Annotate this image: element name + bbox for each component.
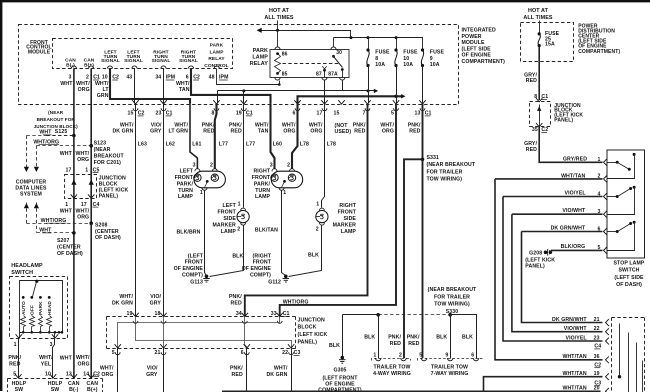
IPM connector pin 8 bbox=[213, 100, 219, 104]
wire WHT/TAN loop (pin2 to row 36) bbox=[495, 179, 603, 360]
U1 FCM pin 3 bbox=[71, 66, 76, 69]
svg-text:6: 6 bbox=[241, 350, 244, 356]
svg-text:5: 5 bbox=[112, 350, 115, 356]
node S330 splice row bbox=[343, 314, 379, 316]
svg-text:3: 3 bbox=[270, 162, 273, 168]
svg-text:5: 5 bbox=[419, 353, 422, 359]
svg-text:4-WAY WIRING: 4-WAY WIRING bbox=[373, 371, 411, 377]
svg-text:S125: S125 bbox=[55, 129, 68, 135]
node S208 splice bbox=[89, 221, 93, 225]
switch SW2 pin 4 bbox=[604, 193, 607, 200]
svg-text:FUSE: FUSE bbox=[375, 50, 390, 56]
svg-text:COMPARTMENT): COMPARTMENT) bbox=[462, 59, 506, 65]
svg-text:PANEL): PANEL) bbox=[554, 118, 573, 124]
svg-text:OF ENGINE: OF ENGINE bbox=[174, 266, 204, 272]
wire CAN B(+) WHT/ORG from FCM pin 2 bbox=[90, 69, 92, 379]
switch SW2 element 1 bbox=[607, 162, 618, 164]
svg-text:GRY: GRY bbox=[146, 372, 158, 378]
svg-text:33: 33 bbox=[271, 311, 277, 317]
relay K1 terminal 86 bump bbox=[275, 47, 280, 50]
svg-text:WHT/: WHT/ bbox=[309, 122, 323, 128]
wire GRY/RED from fuse 25 bbox=[538, 46, 540, 100]
switch SW1 rotary pivot and blade bbox=[35, 280, 38, 283]
switch SW1 resistors bbox=[21, 316, 26, 327]
svg-text:AUTO: AUTO bbox=[21, 301, 27, 315]
svg-text:17: 17 bbox=[66, 167, 72, 173]
svg-text:86: 86 bbox=[282, 52, 288, 58]
svg-text:DATA LINES: DATA LINES bbox=[15, 186, 47, 192]
svg-text:HOT AT: HOT AT bbox=[528, 8, 549, 14]
U1 FCM pin 2, connector C1 bbox=[89, 66, 94, 69]
svg-text:FRONT: FRONT bbox=[252, 175, 271, 181]
svg-text:10: 10 bbox=[403, 56, 409, 62]
svg-text:LEFT: LEFT bbox=[180, 169, 194, 175]
svg-text:TURN: TURN bbox=[255, 188, 270, 194]
junction block bottom pin 22 bbox=[288, 344, 294, 348]
fuse F10 (FUSE 10 10A) bbox=[396, 38, 398, 50]
junction block (right) box bbox=[530, 102, 551, 127]
svg-text:BLK: BLK bbox=[232, 253, 243, 259]
svg-text:WHT: WHT bbox=[60, 81, 73, 87]
wire relay 30 riser bbox=[333, 38, 335, 47]
wire L63 WHT/DK GRN to junction block pin 19 bbox=[135, 105, 137, 317]
svg-text:17: 17 bbox=[317, 111, 323, 117]
U1 FCM pin 6, connector C2 bbox=[188, 66, 193, 69]
node S331 splice bbox=[421, 158, 425, 162]
svg-text:(RIGHT: (RIGHT bbox=[253, 253, 272, 259]
svg-text:WHT: WHT bbox=[60, 151, 73, 157]
relay K1 mechanical link (dashed) bbox=[283, 63, 339, 65]
svg-text:19: 19 bbox=[127, 311, 133, 317]
svg-text:RED: RED bbox=[526, 78, 537, 84]
svg-text:BLK: BLK bbox=[436, 335, 447, 341]
ground G112 bbox=[283, 275, 290, 283]
svg-text:2: 2 bbox=[316, 226, 319, 232]
IPM connector pin 15 C2 bbox=[132, 100, 138, 104]
svg-text:6: 6 bbox=[186, 75, 189, 81]
svg-text:RED: RED bbox=[231, 129, 242, 135]
svg-text:8: 8 bbox=[212, 111, 215, 117]
svg-text:WHT/: WHT/ bbox=[120, 122, 134, 128]
svg-text:DK GRN: DK GRN bbox=[266, 372, 287, 378]
relay K1 terminal 87A bbox=[341, 68, 344, 71]
svg-text:1: 1 bbox=[14, 342, 17, 348]
svg-text:5: 5 bbox=[391, 111, 394, 117]
svg-text:S330: S330 bbox=[446, 309, 459, 315]
svg-text:WHT: WHT bbox=[60, 208, 73, 214]
switch SW1 position contacts bbox=[22, 296, 25, 299]
fuse F9 (FUSE 9 10A) bbox=[421, 50, 423, 66]
svg-text:L63: L63 bbox=[138, 141, 147, 147]
svg-text:WHT/: WHT/ bbox=[255, 122, 269, 128]
svg-text:SW: SW bbox=[15, 387, 24, 392]
switch SW2 pin 3 bbox=[604, 211, 607, 218]
svg-text:YEL: YEL bbox=[41, 361, 52, 367]
svg-text:VIO/WHT: VIO/WHT bbox=[562, 208, 586, 214]
svg-text:10A: 10A bbox=[375, 62, 385, 68]
svg-text:USED): USED) bbox=[335, 129, 352, 135]
svg-text:5: 5 bbox=[13, 371, 16, 377]
svg-text:10A: 10A bbox=[403, 62, 413, 68]
svg-text:21: 21 bbox=[594, 317, 600, 323]
svg-text:GRN: GRN bbox=[97, 93, 109, 99]
FCM bottom pin 10 bbox=[50, 374, 56, 378]
wire WHT/ORG from IPM pin 5 to junction pin 33 bbox=[280, 104, 396, 317]
wire hot feed riser to relay 86 bbox=[277, 21, 279, 47]
wire L60 WHT/TAN to right park lamp pin 3 (thick) bbox=[271, 104, 275, 169]
junction block internal arrows bbox=[71, 180, 76, 185]
IPM connector pin 19 C1 bbox=[241, 100, 247, 104]
svg-text:(NEAR: (NEAR bbox=[94, 147, 111, 153]
svg-text:TOW WIRING): TOW WIRING) bbox=[434, 302, 470, 308]
svg-text:VIO/YEL: VIO/YEL bbox=[566, 335, 588, 341]
switch SW1 feed rail bbox=[20, 281, 63, 333]
svg-text:DK GRN: DK GRN bbox=[112, 129, 133, 135]
svg-text:1: 1 bbox=[85, 167, 88, 173]
switch SW2 pin 1 bbox=[604, 159, 607, 166]
svg-text:PNK/: PNK/ bbox=[388, 335, 401, 341]
U1 FCM pin 43 bbox=[132, 66, 137, 69]
svg-text:BLK: BLK bbox=[462, 335, 473, 341]
wire link row21 to row19 bbox=[619, 324, 621, 377]
svg-text:PNK/: PNK/ bbox=[353, 122, 366, 128]
svg-text:WHT: WHT bbox=[60, 355, 73, 361]
wire row36 continuation bbox=[642, 361, 644, 392]
svg-text:WHT/: WHT/ bbox=[119, 294, 133, 300]
svg-text:10: 10 bbox=[102, 75, 108, 81]
svg-text:VIO/WHT: VIO/WHT bbox=[564, 326, 588, 332]
svg-text:G305: G305 bbox=[333, 367, 346, 373]
switch SW2 STOP LAMP SWITCH box bbox=[607, 150, 645, 258]
svg-text:HEAD: HEAD bbox=[47, 301, 53, 315]
IPM connector pin 23 C1 bbox=[160, 100, 166, 104]
svg-text:9: 9 bbox=[445, 353, 448, 359]
svg-text:OF DASH): OF DASH) bbox=[616, 282, 642, 288]
svg-text:(CENTER: (CENTER bbox=[57, 245, 81, 251]
svg-text:18: 18 bbox=[155, 311, 161, 317]
svg-text:L78: L78 bbox=[327, 141, 336, 147]
svg-text:TOW WIRING): TOW WIRING) bbox=[427, 177, 463, 183]
svg-text:LT GRN: LT GRN bbox=[168, 129, 188, 135]
wire VIO/WHT loop (pin3 to row 22) bbox=[512, 214, 603, 332]
wire S330 to 7-way pin 9 bbox=[450, 315, 452, 359]
svg-text:LAMP: LAMP bbox=[178, 194, 194, 200]
junction block internal link 33-5 bbox=[118, 317, 280, 349]
lamp LEFT FRONT PARK/TURN LAMP bbox=[194, 171, 225, 188]
lamp RIGHT FRONT PARK/TURN LAMP bbox=[271, 171, 302, 188]
svg-text:6: 6 bbox=[471, 353, 474, 359]
wire S331 branch to 4-way pin 2 bbox=[404, 159, 423, 358]
svg-text:VIO/YEL: VIO/YEL bbox=[565, 190, 587, 196]
svg-text:MARKER: MARKER bbox=[213, 222, 237, 228]
fuse F8 (FUSE 8 10A) bbox=[368, 38, 370, 50]
svg-text:(CENTER: (CENTER bbox=[95, 229, 119, 235]
wire dashed data line from S125 bbox=[47, 135, 74, 137]
svg-text:WHT/TAN: WHT/TAN bbox=[562, 354, 586, 360]
svg-text:PANEL): PANEL) bbox=[298, 339, 318, 345]
IPM connector pin 15 bbox=[338, 100, 344, 104]
FCM bottom pin 14 bbox=[88, 374, 94, 378]
svg-text:14: 14 bbox=[83, 371, 89, 377]
svg-text:L77: L77 bbox=[246, 141, 255, 147]
svg-text:85: 85 bbox=[282, 72, 288, 78]
svg-text:6: 6 bbox=[293, 111, 296, 117]
svg-text:ORG: ORG bbox=[77, 214, 89, 220]
svg-text:(NOT: (NOT bbox=[335, 123, 349, 129]
svg-text:(LEFT KICK: (LEFT KICK bbox=[525, 257, 555, 263]
svg-text:1: 1 bbox=[598, 157, 601, 163]
relay K1 switch blade bbox=[334, 57, 343, 68]
relay K1 coil bbox=[275, 54, 281, 74]
wire VIO/YEL loop (pin4 to row 23) bbox=[503, 197, 603, 342]
svg-text:30: 30 bbox=[336, 50, 342, 56]
U1 FCM pin 34, connector IPM bbox=[161, 66, 166, 69]
svg-text:(LEFT KICK: (LEFT KICK bbox=[298, 332, 328, 338]
svg-text:BLK/ORG: BLK/ORG bbox=[561, 244, 586, 250]
svg-text:WHT/: WHT/ bbox=[282, 122, 296, 128]
wire DK GRN/WHT loop (pin6 to row 21) bbox=[522, 232, 603, 323]
connector TRAILER TOW 7-WAY WIRING bbox=[418, 359, 483, 361]
svg-text:1: 1 bbox=[65, 202, 68, 208]
svg-text:L78: L78 bbox=[300, 141, 309, 147]
wire row23 continuation bbox=[636, 343, 638, 392]
svg-text:BLK/TAN: BLK/TAN bbox=[255, 228, 278, 234]
svg-text:PNK/: PNK/ bbox=[408, 122, 421, 128]
svg-text:PANEL): PANEL) bbox=[525, 264, 545, 270]
svg-text:17: 17 bbox=[81, 202, 87, 208]
svg-text:WHT/ORG: WHT/ORG bbox=[283, 299, 309, 305]
svg-text:G113: G113 bbox=[190, 279, 203, 285]
wire fuse8 down to IPM pin 7 bbox=[368, 66, 370, 104]
svg-text:(NEAR BREAKOUT: (NEAR BREAKOUT bbox=[427, 162, 476, 168]
svg-text:WHT/: WHT/ bbox=[380, 122, 394, 128]
svg-text:HEADLAMP: HEADLAMP bbox=[11, 263, 43, 269]
svg-text:8: 8 bbox=[375, 56, 378, 62]
svg-text:13: 13 bbox=[66, 371, 72, 377]
wire dashed data line from S123 bbox=[37, 145, 92, 147]
relay K1 bottom bumps bbox=[275, 78, 280, 81]
svg-text:INTEGRATED: INTEGRATED bbox=[462, 28, 496, 34]
svg-text:VIO/: VIO/ bbox=[151, 122, 162, 128]
svg-text:G208: G208 bbox=[529, 251, 542, 257]
svg-text:1: 1 bbox=[316, 202, 319, 208]
svg-text:15A: 15A bbox=[545, 42, 555, 48]
svg-text:L77: L77 bbox=[219, 141, 228, 147]
svg-text:S207: S207 bbox=[57, 238, 70, 244]
svg-text:1: 1 bbox=[200, 190, 203, 196]
svg-text:PNK/: PNK/ bbox=[230, 366, 243, 372]
svg-text:RELAY: RELAY bbox=[208, 56, 225, 62]
wire branch to IPM pin 19 bbox=[243, 91, 245, 104]
wire L77 PNK/RED to left park lamp pin 2 (thick) bbox=[215, 104, 217, 169]
svg-text:OF DASH): OF DASH) bbox=[57, 251, 83, 257]
svg-text:JUNCTION: JUNCTION bbox=[298, 317, 325, 323]
svg-text:SW: SW bbox=[51, 387, 60, 392]
svg-text:2: 2 bbox=[287, 162, 290, 168]
wire branch to IPM pin 8 bbox=[217, 91, 219, 104]
switch SW1 pin 1 bbox=[19, 333, 21, 339]
svg-text:3: 3 bbox=[193, 162, 196, 168]
lamp RIGHT FRONT SIDE MARKER LAMP bbox=[316, 211, 328, 223]
svg-text:SIDE: SIDE bbox=[223, 216, 236, 222]
svg-text:2: 2 bbox=[210, 162, 213, 168]
svg-text:PARK: PARK bbox=[38, 301, 44, 315]
svg-text:SYSTEM: SYSTEM bbox=[20, 192, 42, 198]
svg-text:STOP LAMP: STOP LAMP bbox=[614, 261, 645, 267]
svg-text:TRAILER TOW: TRAILER TOW bbox=[431, 365, 468, 371]
svg-text:FRONT: FRONT bbox=[185, 260, 204, 266]
junction block top pin 19 bbox=[132, 313, 138, 317]
ground G113 bbox=[203, 275, 210, 283]
U1 FCM pin 48, connector IPM bbox=[214, 66, 219, 69]
svg-text:COMPT): COMPT) bbox=[250, 272, 271, 278]
svg-text:L61: L61 bbox=[192, 141, 201, 147]
power distribution center box bbox=[521, 23, 574, 62]
svg-text:PNK/: PNK/ bbox=[229, 294, 242, 300]
svg-text:9: 9 bbox=[430, 56, 433, 62]
switch SW1 box bbox=[10, 277, 68, 339]
IPM connector pin 13 C1 bbox=[419, 100, 425, 104]
svg-text:35: 35 bbox=[532, 127, 538, 133]
junction block (left kick panel) box bbox=[107, 316, 296, 318]
svg-text:MODULE: MODULE bbox=[28, 49, 51, 55]
connector TRAILER TOW 4-WAY WIRING bbox=[372, 359, 411, 361]
svg-text:PARK/: PARK/ bbox=[177, 181, 194, 187]
svg-text:34: 34 bbox=[155, 75, 161, 81]
svg-text:13: 13 bbox=[415, 111, 421, 117]
FCM bottom pin 5 bbox=[15, 374, 21, 378]
svg-text:COMPUTER: COMPUTER bbox=[16, 179, 47, 185]
wire WHT/TAN row 19 from below bbox=[484, 377, 603, 392]
svg-text:DK GRN: DK GRN bbox=[112, 300, 133, 306]
svg-text:34: 34 bbox=[236, 311, 242, 317]
svg-text:22: 22 bbox=[282, 350, 288, 356]
svg-text:PNK/: PNK/ bbox=[229, 122, 242, 128]
svg-text:OF ENGINE: OF ENGINE bbox=[242, 266, 272, 272]
svg-text:7: 7 bbox=[363, 111, 366, 117]
fuse F25 (FUSE 25 15A) bbox=[539, 21, 541, 34]
svg-text:22: 22 bbox=[594, 326, 600, 332]
svg-text:MODULE: MODULE bbox=[462, 40, 486, 46]
wire rail from hot feed with page arrow bbox=[259, 31, 351, 38]
svg-text:B(-): B(-) bbox=[69, 387, 79, 392]
wire FCM pin48 to relay 85 bbox=[217, 69, 280, 85]
svg-text:(LEFT: (LEFT bbox=[188, 253, 204, 259]
svg-text:RELAY: RELAY bbox=[250, 61, 269, 67]
svg-text:OFF: OFF bbox=[30, 305, 36, 315]
svg-text:10A: 10A bbox=[430, 62, 440, 68]
svg-text:RED: RED bbox=[203, 129, 214, 135]
wire FCM pin10 left-turn feed (thick) bbox=[110, 69, 190, 104]
wire L62 VIO/GRY to junction block pin 18 bbox=[163, 105, 165, 317]
junction block top pin 34 bbox=[242, 313, 248, 317]
wire FCM pin6 right-turn feed (thick) bbox=[190, 69, 192, 72]
svg-text:15: 15 bbox=[334, 111, 340, 117]
node S207 splice bbox=[72, 231, 76, 235]
svg-text:ORG: ORG bbox=[101, 372, 113, 378]
junction block top pin 18 bbox=[160, 313, 166, 317]
svg-text:PNK/: PNK/ bbox=[407, 335, 420, 341]
svg-text:SIGNAL: SIGNAL bbox=[179, 58, 198, 64]
switch SW2 pin 6 bbox=[604, 228, 607, 235]
svg-text:3: 3 bbox=[69, 75, 72, 81]
svg-text:RED: RED bbox=[354, 129, 365, 135]
svg-text:WHT/: WHT/ bbox=[100, 366, 114, 372]
svg-text:RIGHT: RIGHT bbox=[339, 203, 356, 209]
svg-text:2: 2 bbox=[86, 75, 89, 81]
svg-text:FRONT: FRONT bbox=[175, 175, 194, 181]
svg-text:VIO/: VIO/ bbox=[147, 366, 158, 372]
svg-text:GRY: GRY bbox=[150, 300, 162, 306]
svg-text:TRAILER TOW: TRAILER TOW bbox=[373, 365, 410, 371]
svg-text:19: 19 bbox=[236, 111, 242, 117]
wire L78 WHT/ORG to right park lamp pin 2 (thick) bbox=[292, 104, 298, 169]
svg-text:BREAKOUT FOR: BREAKOUT FOR bbox=[37, 117, 76, 122]
wire FCM pin43 turn signal bbox=[134, 69, 136, 104]
svg-text:RED: RED bbox=[409, 129, 420, 135]
svg-text:FRONT: FRONT bbox=[338, 210, 357, 216]
junction block bottom pin 6 bbox=[244, 344, 250, 348]
svg-text:(NEAR: (NEAR bbox=[48, 110, 64, 115]
svg-text:RED: RED bbox=[232, 372, 243, 378]
svg-text:BREAKOUT: BREAKOUT bbox=[94, 153, 125, 159]
svg-text:SWITCH: SWITCH bbox=[618, 268, 639, 274]
svg-text:SWITCH: SWITCH bbox=[11, 270, 33, 276]
lamp LEFT FRONT SIDE MARKER LAMP bbox=[237, 211, 249, 223]
IPM connector pin 7 bbox=[364, 100, 370, 104]
svg-text:RED: RED bbox=[390, 341, 401, 347]
svg-text:3: 3 bbox=[50, 342, 53, 348]
junction block internal link 19-22 bbox=[136, 317, 292, 349]
svg-text:(LEFT SIDE: (LEFT SIDE bbox=[614, 275, 644, 281]
svg-text:BLK/BRN: BLK/BRN bbox=[176, 229, 200, 235]
svg-text:1: 1 bbox=[238, 202, 241, 208]
svg-text:43: 43 bbox=[126, 75, 132, 81]
svg-text:BLK: BLK bbox=[364, 335, 375, 341]
svg-text:FOR TRAILER: FOR TRAILER bbox=[434, 294, 470, 300]
ground G305 bbox=[339, 356, 346, 364]
wire PNK/RED from IPM pin 7 to junction pin 34 bbox=[245, 104, 368, 317]
svg-text:ORG: ORG bbox=[310, 129, 322, 135]
wire L78 WHT/ORG to right side marker pin 1 bbox=[322, 105, 325, 208]
U1 FCM pin 10, connector C2 bbox=[107, 66, 112, 69]
svg-text:FUSE: FUSE bbox=[403, 50, 418, 56]
svg-text:S123: S123 bbox=[94, 140, 107, 146]
wire row22 continuation bbox=[628, 333, 630, 392]
svg-text:S331: S331 bbox=[427, 155, 440, 161]
wire dashed data line to S208 bbox=[24, 203, 29, 208]
svg-text:48: 48 bbox=[209, 75, 215, 81]
svg-text:MARKER: MARKER bbox=[333, 222, 357, 228]
svg-text:ORG: ORG bbox=[283, 129, 295, 135]
svg-text:PARK: PARK bbox=[253, 48, 268, 54]
switch SW2 pin 2 bbox=[604, 176, 607, 183]
svg-text:DK GRN/WHT: DK GRN/WHT bbox=[552, 317, 587, 323]
svg-text:L62: L62 bbox=[166, 141, 175, 147]
svg-text:WHT/: WHT/ bbox=[39, 355, 53, 361]
svg-text:TURN: TURN bbox=[178, 188, 193, 194]
svg-text:B(+): B(+) bbox=[87, 387, 98, 392]
junction block (right) internal wire bbox=[539, 105, 541, 127]
svg-text:1: 1 bbox=[283, 190, 286, 196]
switch SW2 element 2 bbox=[607, 196, 618, 198]
wire fuse10 down to IPM pin 5 bbox=[396, 66, 398, 104]
junction block internal link 34-6 bbox=[245, 317, 247, 349]
svg-text:ALL TIMES: ALL TIMES bbox=[264, 15, 294, 21]
svg-text:G112: G112 bbox=[268, 279, 281, 285]
svg-text:LAMP: LAMP bbox=[252, 55, 268, 61]
svg-text:FRONT: FRONT bbox=[253, 260, 272, 266]
